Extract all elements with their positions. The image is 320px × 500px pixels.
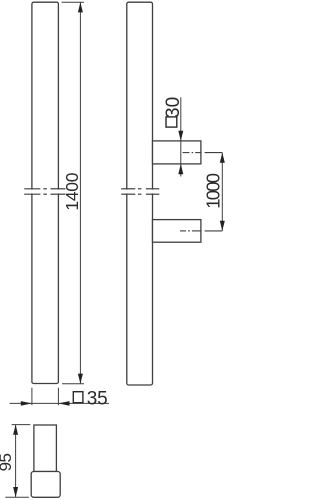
handle bar side view (right) bbox=[127, 2, 153, 385]
dimension 1000: arrowheads bbox=[220, 153, 225, 163]
svg-text:95: 95 bbox=[0, 454, 15, 472]
dimension 95: extension lines bbox=[5, 425, 30, 498]
dimension 95: arrowheads bbox=[13, 425, 18, 435]
dimension square-35: dimension line bbox=[10, 402, 109, 404]
svg-text:30: 30 bbox=[163, 97, 184, 118]
lower mounting post bbox=[153, 220, 201, 243]
break gap on left bar bbox=[29, 190, 61, 194]
svg-text:1000: 1000 bbox=[203, 173, 224, 208]
dimension 95: dimension line bbox=[15, 425, 17, 498]
svg-text:1400: 1400 bbox=[62, 172, 82, 210]
svg-text:35: 35 bbox=[87, 388, 108, 409]
handle bar front view (left) bbox=[32, 2, 59, 383]
dimension 1400: dimension line bbox=[79, 2, 81, 384]
break lines on right bar bbox=[121, 189, 159, 194]
dimension square-35: square symbol bbox=[73, 392, 83, 403]
dimension 30: label square symbol (rotated) bbox=[166, 117, 177, 127]
dimension 1000: dimension line bbox=[221, 153, 223, 231]
dimension 30: arrowheads bbox=[178, 131, 183, 141]
upper mounting post bbox=[153, 141, 201, 164]
dimension 1400: extension lines bbox=[62, 2, 85, 384]
bottom detail: post column bbox=[34, 425, 57, 472]
centerline of upper post bbox=[183, 152, 223, 154]
dimension square-35: arrowheads bbox=[21, 401, 32, 406]
break gap on right bar bbox=[124, 190, 155, 194]
dimension 30: dimension line through post bbox=[180, 97, 182, 176]
centerline of lower post bbox=[180, 230, 222, 232]
dimension 1400: arrowheads bbox=[78, 2, 83, 12]
break lines on left bar bbox=[24, 189, 65, 194]
dimension square-35: extension lines bbox=[10, 388, 109, 406]
bottom detail: post base bbox=[31, 472, 60, 498]
